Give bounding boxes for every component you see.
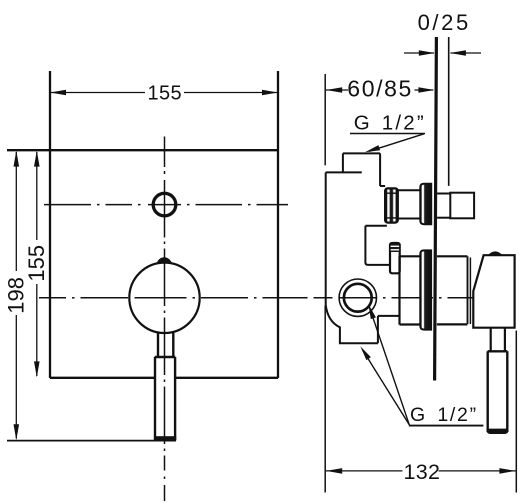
front view: big knob circle — [129, 263, 199, 333]
side view: body step right of foot vertical — [377, 316, 379, 343]
side view: grip top edge — [488, 350, 508, 352]
side view: pipe beyond wall top — [437, 193, 450, 195]
svg-text:0/25: 0/25 — [418, 10, 471, 35]
front view: handle sleeve top edge — [155, 356, 176, 359]
dimension 132: right line segment — [439, 470, 516, 472]
main horizontal centerline across both views — [39, 297, 503, 299]
front view: index bump on top of knob — [157, 257, 172, 263]
svg-text:155: 155 — [24, 245, 49, 282]
front view: plate bottom edge left segment — [50, 377, 155, 379]
dimension 155 vertical: line segments — [36, 152, 38, 240]
dimension 155 horizontal: right arrow — [262, 90, 278, 96]
side view: stub dark top band — [391, 244, 399, 252]
label G 1/2 lower: arrowhead at foot — [358, 345, 371, 360]
dimension 60/85: left arrowhead — [326, 87, 342, 93]
dimension 0/25: left arrow line — [404, 52, 434, 54]
front view: handle sleeve bottom cap — [154, 436, 176, 441]
side view: grip bottom cap — [487, 429, 509, 434]
side view: handle block outline — [473, 255, 514, 328]
side view: lower wall flange — [420, 250, 431, 329]
side view: grip left edge — [487, 351, 489, 432]
dimension 60/85: left line segment — [326, 89, 348, 91]
front view: small hole circle — [153, 193, 176, 216]
side view: handle neck right — [504, 328, 506, 352]
label G 1/2 upper: leader arrowhead — [364, 145, 380, 155]
side view: body step under nut vertical — [364, 226, 366, 263]
side view: step into nut — [380, 185, 385, 187]
side view: left extension line lower part — [324, 306, 326, 493]
side view: pipe nut — [385, 188, 398, 222]
side view: pipe end cap — [450, 193, 474, 219]
side view: body top edge — [343, 152, 380, 154]
side view: sleeve bottom edge right of wall — [437, 323, 468, 325]
side view: left extension line upper part — [324, 74, 326, 165]
side view: body right edge above pipe — [379, 153, 381, 186]
side view: sleeve end face line 1 — [467, 256, 469, 324]
side view: pipe beyond wall bottom — [437, 217, 450, 219]
dimension 132: left arrowhead — [326, 468, 342, 474]
side view: cartridge left edge — [398, 256, 400, 324]
front view: upper horizontal centerline through small hole — [44, 204, 288, 206]
dimension 132: right arrowhead — [499, 468, 515, 474]
side view: handle neck left — [490, 328, 492, 352]
label G 1/2 lower: underline — [409, 425, 484, 427]
svg-text:G: G — [410, 404, 425, 426]
svg-text:1/2”: 1/2” — [382, 112, 426, 135]
side view: nut bottom chamfer line — [386, 217, 398, 219]
side view: wall line (finished wall) — [435, 37, 437, 381]
svg-text:G: G — [354, 112, 370, 135]
label G 1/2 lower: arrowhead at circle — [366, 303, 376, 319]
front view: handle sleeve right edge — [174, 357, 176, 440]
side view: wall max line — [448, 37, 450, 186]
side view: inlet port outer circle — [339, 279, 376, 316]
svg-text:132: 132 — [404, 460, 441, 484]
front view: plate top edge with left extension — [7, 149, 278, 151]
dimension 0/25: left arrowhead — [419, 50, 435, 56]
front view: handle stem left edge — [157, 332, 159, 357]
front view: vertical centerline — [164, 137, 166, 502]
label G 1/2 lower: leader to foot — [363, 350, 410, 425]
dimension 132: left line segment — [326, 470, 403, 472]
side view: body step right of foot horizontal — [378, 315, 400, 317]
side view: inlet port inner circle — [344, 284, 372, 312]
dimension 0/25: right arrow line — [451, 52, 482, 54]
dimension 0/25: right arrowhead — [450, 50, 466, 56]
side view: body corner into stub shelf — [365, 263, 390, 265]
svg-text:198: 198 — [3, 277, 28, 314]
svg-text:1/2”: 1/2” — [437, 404, 477, 426]
side view: top-left step horizontal — [326, 171, 362, 173]
side view: stub band white line 2 — [391, 249, 400, 251]
dimension 155 horizontal: line segments — [50, 92, 145, 94]
side view: grip right edge — [506, 351, 508, 432]
side view: nut top chamfer line — [386, 192, 398, 194]
label G 1/2 upper: leader line — [369, 134, 424, 152]
side view: sleeve top edge right of wall — [437, 255, 468, 257]
dimension 198 vertical: bottom arrow — [13, 424, 19, 440]
side view: handle screw dome — [488, 251, 503, 255]
label G 1/2 upper: underline — [350, 133, 425, 135]
side view: pipe tube top — [398, 189, 421, 191]
dimension 60/85: right arrowhead — [418, 87, 434, 93]
dimension 198 vertical: line segments — [15, 152, 17, 271]
side view: lower stub valve body — [390, 243, 400, 273]
side view: cartridge bottom edge — [400, 323, 421, 325]
front view: plate right edge extended up as dim extension — [277, 71, 279, 378]
label G 1/2 lower: leader to inlet circle — [370, 310, 409, 425]
side view: stub band white line 1 — [391, 245, 400, 247]
dimension 155 horizontal: left arrow — [50, 90, 66, 96]
front view: handle stem right edge — [172, 332, 174, 357]
side view: pipe tube bottom — [398, 218, 421, 220]
side view: body foot outline with fillet — [326, 305, 378, 343]
side view: sleeve end face line 2 — [469, 258, 471, 325]
side view: body step under nut horizontal — [365, 225, 387, 227]
side view: upper wall flange — [420, 184, 431, 225]
front view: plate bottom edge right segment — [175, 377, 278, 379]
side view: body left edge — [325, 172, 327, 306]
front view: bottom reference line for 198 dim — [7, 440, 176, 442]
dimension 155 vertical: bottom arrow — [34, 361, 40, 377]
dimension 155 vertical: top arrow — [34, 151, 40, 167]
svg-text:60/85: 60/85 — [347, 75, 413, 101]
front view: handle sleeve left edge — [154, 357, 156, 440]
side view: cartridge top edge — [400, 255, 421, 257]
dimension 132: right extension line — [515, 331, 517, 493]
dimension 60/85: right line segment — [415, 89, 434, 91]
svg-text:155: 155 — [148, 82, 183, 104]
front view: plate left edge extended up as dim extension — [49, 71, 51, 378]
dimension 198 vertical: top arrow — [13, 151, 19, 167]
side view: top step vertical — [342, 153, 344, 172]
